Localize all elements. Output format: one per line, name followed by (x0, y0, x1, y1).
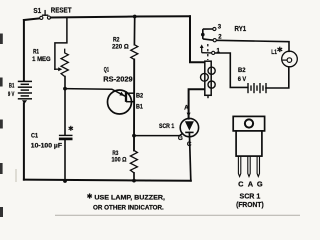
wire left rail bottom (23, 103, 25, 179)
wire SCR cathode (189, 132, 190, 180)
svg-text:L1: L1 (271, 49, 277, 56)
relay coil core rectangle (205, 61, 211, 95)
junction dot R2 top (133, 15, 137, 19)
svg-text:A: A (184, 105, 189, 112)
SCR1 circle (180, 118, 198, 136)
svg-text:B1: B1 (9, 82, 15, 89)
transistor Q1 B2 lead (126, 92, 134, 94)
switch S1 plunger stem (44, 11, 46, 16)
relay contact 2 circle (213, 39, 216, 42)
svg-text:1 MEG: 1 MEG (32, 56, 51, 63)
svg-text:OR OTHER INDICATOR.: OR OTHER INDICATOR. (93, 204, 164, 211)
wire C1 bottom lead (64, 140, 66, 181)
capacitor C1 top plate (59, 134, 73, 136)
wire coil bottom to SCR anode (189, 89, 205, 118)
svg-text:Q1: Q1 (104, 67, 110, 74)
relay actuation arrow stem (201, 47, 203, 52)
SCR1 anode arrowhead (187, 113, 191, 117)
svg-text:C1: C1 (31, 133, 38, 140)
svg-text:RS-2029: RS-2029 (103, 76, 132, 83)
TO-220 lead G (257, 156, 259, 176)
lamp L1 filament loop (287, 58, 292, 63)
relay actuation arrowhead (200, 44, 204, 48)
wire right vertical to relay coil (190, 16, 205, 62)
junction dot B1/gate/R3 (132, 134, 136, 138)
SCR1 cathode bar (185, 131, 193, 133)
switch S1 right contact circle (47, 16, 50, 19)
wire bottom rail (24, 180, 191, 181)
asterisk footnote (87, 193, 92, 198)
transistor Q1 base bar (125, 91, 127, 102)
TO-220 lead C (238, 156, 240, 176)
relay pivot dot (201, 33, 205, 37)
svg-text:RESET: RESET (51, 8, 72, 15)
battery B2 plates (248, 83, 266, 93)
junction dot C1 bottom (63, 179, 67, 183)
transistor Q1 emitter arrowhead (119, 92, 124, 96)
svg-text:6 V: 6 V (238, 76, 247, 83)
svg-text:C: C (187, 141, 192, 148)
transistor Q1 B1 lead (126, 101, 134, 103)
svg-text:B1: B1 (136, 104, 143, 111)
svg-text:A: A (248, 179, 254, 188)
junction dot R1/C1/emitter (63, 87, 67, 91)
svg-text:SCR 1: SCR 1 (159, 123, 175, 130)
svg-text:B2: B2 (136, 92, 144, 99)
scan ghost near corner (15, 169, 17, 182)
battery B1 bottom arrow (22, 100, 27, 104)
wire R3 bottom lead (133, 173, 135, 181)
svg-text:R2: R2 (113, 36, 120, 43)
svg-text:10-100 µF: 10-100 µF (31, 142, 62, 149)
TO-220 tab (233, 116, 264, 130)
resistor R1 zigzag (61, 49, 68, 77)
relay armature pivot (202, 29, 204, 39)
lamp L1 filament tail (282, 59, 287, 61)
relay armature to contact 2 (203, 39, 213, 40)
wire B2 to lamp bottom (266, 67, 289, 88)
resistor R1 wiper arrowhead (58, 67, 62, 71)
resistor R2 zigzag (131, 45, 138, 60)
TO-220 lead A (248, 156, 250, 176)
SCR1 triangle (185, 121, 194, 130)
svg-text:G: G (178, 135, 183, 142)
wire R1 wiper arrow (55, 68, 58, 70)
junction dot R3 bottom (132, 179, 136, 183)
svg-text:100 Ω: 100 Ω (112, 157, 128, 164)
wire R1 feed from top rail (55, 17, 67, 69)
wire relay contact1 to battery B2 (215, 53, 248, 87)
wire R2 column top (133, 17, 135, 45)
lamp L1 circle (282, 51, 298, 67)
scan streak bottom (55, 215, 300, 216)
wire emitter from R1 bottom (65, 89, 125, 97)
TO-220 body (236, 131, 262, 156)
svg-text:S1: S1 (33, 8, 41, 15)
wire C1 top lead (64, 77, 66, 135)
relay coil loop left (201, 73, 209, 81)
wire relay contact2 to lamp (216, 40, 289, 51)
TO-220 hole (245, 119, 253, 127)
svg-text:C: C (238, 179, 244, 188)
switch S1 plunger bar (43, 14, 48, 16)
wire top rail left segment (24, 18, 40, 20)
relay coil loop right bottom (208, 81, 215, 88)
wire SCR gate (134, 133, 183, 135)
relay coil bottom stub (207, 95, 209, 98)
svg-text:220 Ω: 220 Ω (112, 44, 129, 51)
svg-text:RY1: RY1 (235, 24, 247, 33)
wire B column mid (133, 59, 135, 150)
relay contact 1 circle (212, 51, 215, 54)
relay coil loop right top (208, 67, 215, 74)
svg-text:G: G (257, 179, 263, 188)
relay mechanical dashed link (207, 44, 209, 60)
capacitor C1 bottom plate (59, 138, 73, 141)
relay wire to contact 1 (202, 52, 212, 54)
relay contact 3 circle (213, 27, 216, 30)
relay contact 3 wire (203, 28, 213, 30)
svg-text:9 V: 9 V (8, 91, 15, 98)
svg-text:R1: R1 (33, 49, 39, 56)
battery B1 plates (18, 81, 32, 98)
wire left rail top (23, 20, 25, 81)
wire top rail right segment (51, 16, 190, 17)
transistor Q1 circle (108, 90, 132, 114)
switch S1 left contact circle (40, 16, 43, 19)
resistor R3 zigzag (130, 150, 137, 173)
scan edge marks left (0, 34, 3, 218)
asterisk at L1 (277, 47, 282, 52)
asterisk at C1 (69, 126, 73, 131)
svg-text:B2: B2 (238, 67, 246, 74)
svg-text:(FRONT): (FRONT) (236, 200, 264, 209)
svg-text:USE LAMP, BUZZER,: USE LAMP, BUZZER, (94, 194, 165, 201)
